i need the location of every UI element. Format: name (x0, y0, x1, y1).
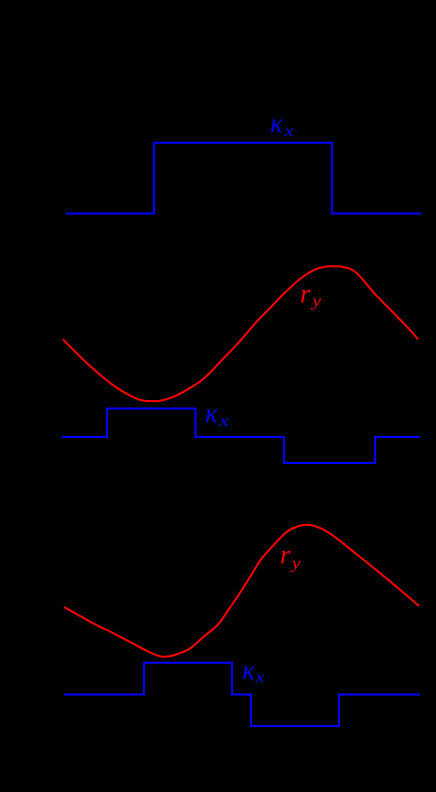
svg-text:κ: κ (270, 108, 284, 138)
svg-text:x: x (254, 669, 264, 686)
svg-text:y: y (310, 293, 322, 310)
svg-text:y: y (290, 556, 302, 573)
svg-text:κ: κ (205, 398, 219, 428)
svg-text:r: r (300, 279, 311, 309)
svg-text:x: x (218, 413, 228, 430)
panel 3: r_y response curve (64, 525, 419, 657)
panel 2 label kappa_x (205, 398, 229, 430)
panel 1: kappa_x step profile (66, 143, 421, 214)
panel 2: r_y response curve (63, 266, 418, 401)
panel 3 label kappa_x (242, 655, 265, 686)
panel 1 label kappa_x (270, 108, 294, 140)
svg-text:κ: κ (242, 655, 256, 685)
panel 2: kappa_x step profile (62, 409, 420, 464)
panel 3: kappa_x step profile (64, 663, 420, 726)
svg-text:x: x (283, 123, 293, 140)
svg-text:r: r (280, 540, 291, 570)
panel 2 label r_y (300, 279, 322, 311)
panel 3 label r_y (280, 540, 302, 573)
